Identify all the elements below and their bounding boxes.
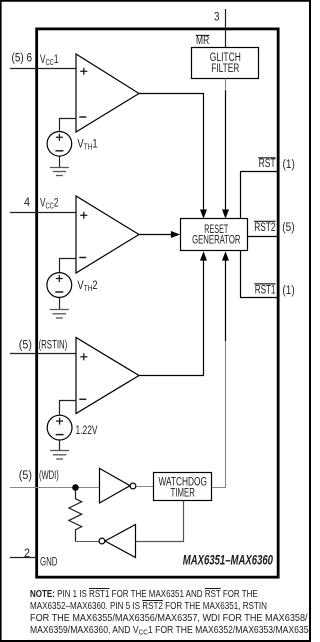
VTH1 label: [77, 138, 97, 152]
comparator U2: [76, 196, 139, 273]
ground: [50, 310, 69, 319]
pin RST1 stub: [240, 297, 279, 299]
VCC1 label: [40, 54, 59, 67]
pin VCC1 stub: [10, 68, 76, 70]
svg-text:GND: GND: [40, 557, 58, 569]
vref VTH1: [47, 132, 72, 157]
comparator U3: [76, 338, 139, 414]
pin GND number label: [24, 548, 30, 560]
node output bus: [240, 172, 242, 298]
svg-text:TIMER: TIMER: [171, 487, 195, 499]
1.22V label: [76, 425, 98, 437]
ground: [50, 451, 69, 460]
wire U5 to watchdog timer: [136, 486, 153, 488]
pin 3 stub (MR): [225, 9, 227, 47]
resistor R1: [69, 491, 82, 542]
svg-text:VTH1: VTH1: [77, 138, 97, 152]
reset generator U8: [181, 219, 248, 251]
svg-text:3: 3: [214, 12, 220, 24]
inverter U7: [99, 525, 136, 558]
wire VTH2 to ground: [59, 297, 61, 309]
WDI label: [39, 470, 59, 482]
comparator U1: [76, 54, 139, 132]
svg-text:(5) 6: (5) 6: [12, 53, 33, 65]
ground: [50, 168, 69, 176]
MR label: [196, 35, 210, 47]
RSTIN label: [39, 340, 68, 352]
pin RST number label: [283, 159, 295, 171]
wire U3 output to reset generator: [139, 251, 207, 375]
VTH2 label: [77, 279, 97, 293]
node WDI junction: [72, 484, 79, 491]
pin 3 number label: [214, 12, 220, 24]
RST1 label: [254, 284, 275, 297]
svg-text:VCC1: VCC1: [40, 54, 59, 67]
pin WDI number label: [19, 470, 32, 482]
svg-text:FILTER: FILTER: [211, 63, 239, 75]
GND label: [40, 557, 58, 569]
pin WDI stub: [10, 487, 100, 489]
note text: [30, 589, 320, 600]
wire resistor to inverter U7 output: [76, 541, 100, 543]
wire glitch filter to reset generator: [222, 79, 229, 219]
svg-text:(1): (1): [282, 285, 294, 297]
svg-text:(5): (5): [19, 470, 32, 482]
svg-text:(WDI): (WDI): [39, 470, 59, 482]
svg-text:2: 2: [24, 548, 30, 560]
svg-text:RST: RST: [259, 158, 276, 170]
part number label: [183, 552, 273, 567]
svg-text:VTH2: VTH2: [77, 279, 97, 293]
svg-text:MAX6351–MAX6360: MAX6351–MAX6360: [183, 552, 273, 567]
pin VCC1 number label: [12, 53, 33, 65]
inverter U5: [100, 468, 136, 503]
svg-text:MR: MR: [196, 35, 209, 47]
watchdog timer U6: [154, 473, 212, 501]
svg-text:1.22V: 1.22V: [76, 425, 98, 437]
svg-text:(1): (1): [283, 159, 295, 171]
svg-text:(5): (5): [19, 340, 32, 352]
wire watchdog timer to reset generator: [212, 251, 229, 487]
pin RST2 stub: [248, 236, 279, 238]
wire VTH1 to ground: [59, 156, 61, 167]
pin RST stub: [240, 171, 279, 173]
svg-text:(5): (5): [282, 222, 294, 234]
pin RSTIN number label: [19, 340, 32, 352]
wire watchdog timer output to inverter U7 input: [136, 501, 184, 542]
svg-text:RST1: RST1: [255, 285, 276, 297]
svg-text:RST2: RST2: [254, 222, 275, 234]
wire U3 inverting input: [60, 401, 77, 416]
vref 1.22V: [47, 415, 72, 440]
wire U1 inverting input: [60, 119, 77, 132]
wire U2 output to reset generator: [139, 231, 180, 238]
main IC boundary box: [37, 29, 279, 577]
RST2 label: [254, 221, 276, 234]
glitch filter U4: [192, 48, 259, 79]
vref VTH2: [47, 273, 72, 298]
pin RSTIN stub: [10, 353, 76, 355]
VCC2 label: [40, 197, 59, 210]
wire 1.22V to ground: [59, 440, 61, 450]
wire U1 output to reset generator: [139, 94, 207, 219]
RST label: [258, 158, 275, 170]
pin VCC2 stub: [10, 212, 76, 214]
wire U2 inverting input: [60, 259, 77, 273]
pin RST2 number label: [282, 222, 294, 234]
pin RST1 number label: [282, 285, 294, 297]
svg-text:(RSTIN): (RSTIN): [39, 340, 68, 352]
svg-text:4: 4: [24, 197, 31, 209]
svg-text:VCC2: VCC2: [40, 197, 59, 210]
pin GND stub: [10, 557, 38, 559]
svg-text:GENERATOR: GENERATOR: [192, 234, 240, 246]
pin VCC2 number label: [24, 197, 31, 209]
